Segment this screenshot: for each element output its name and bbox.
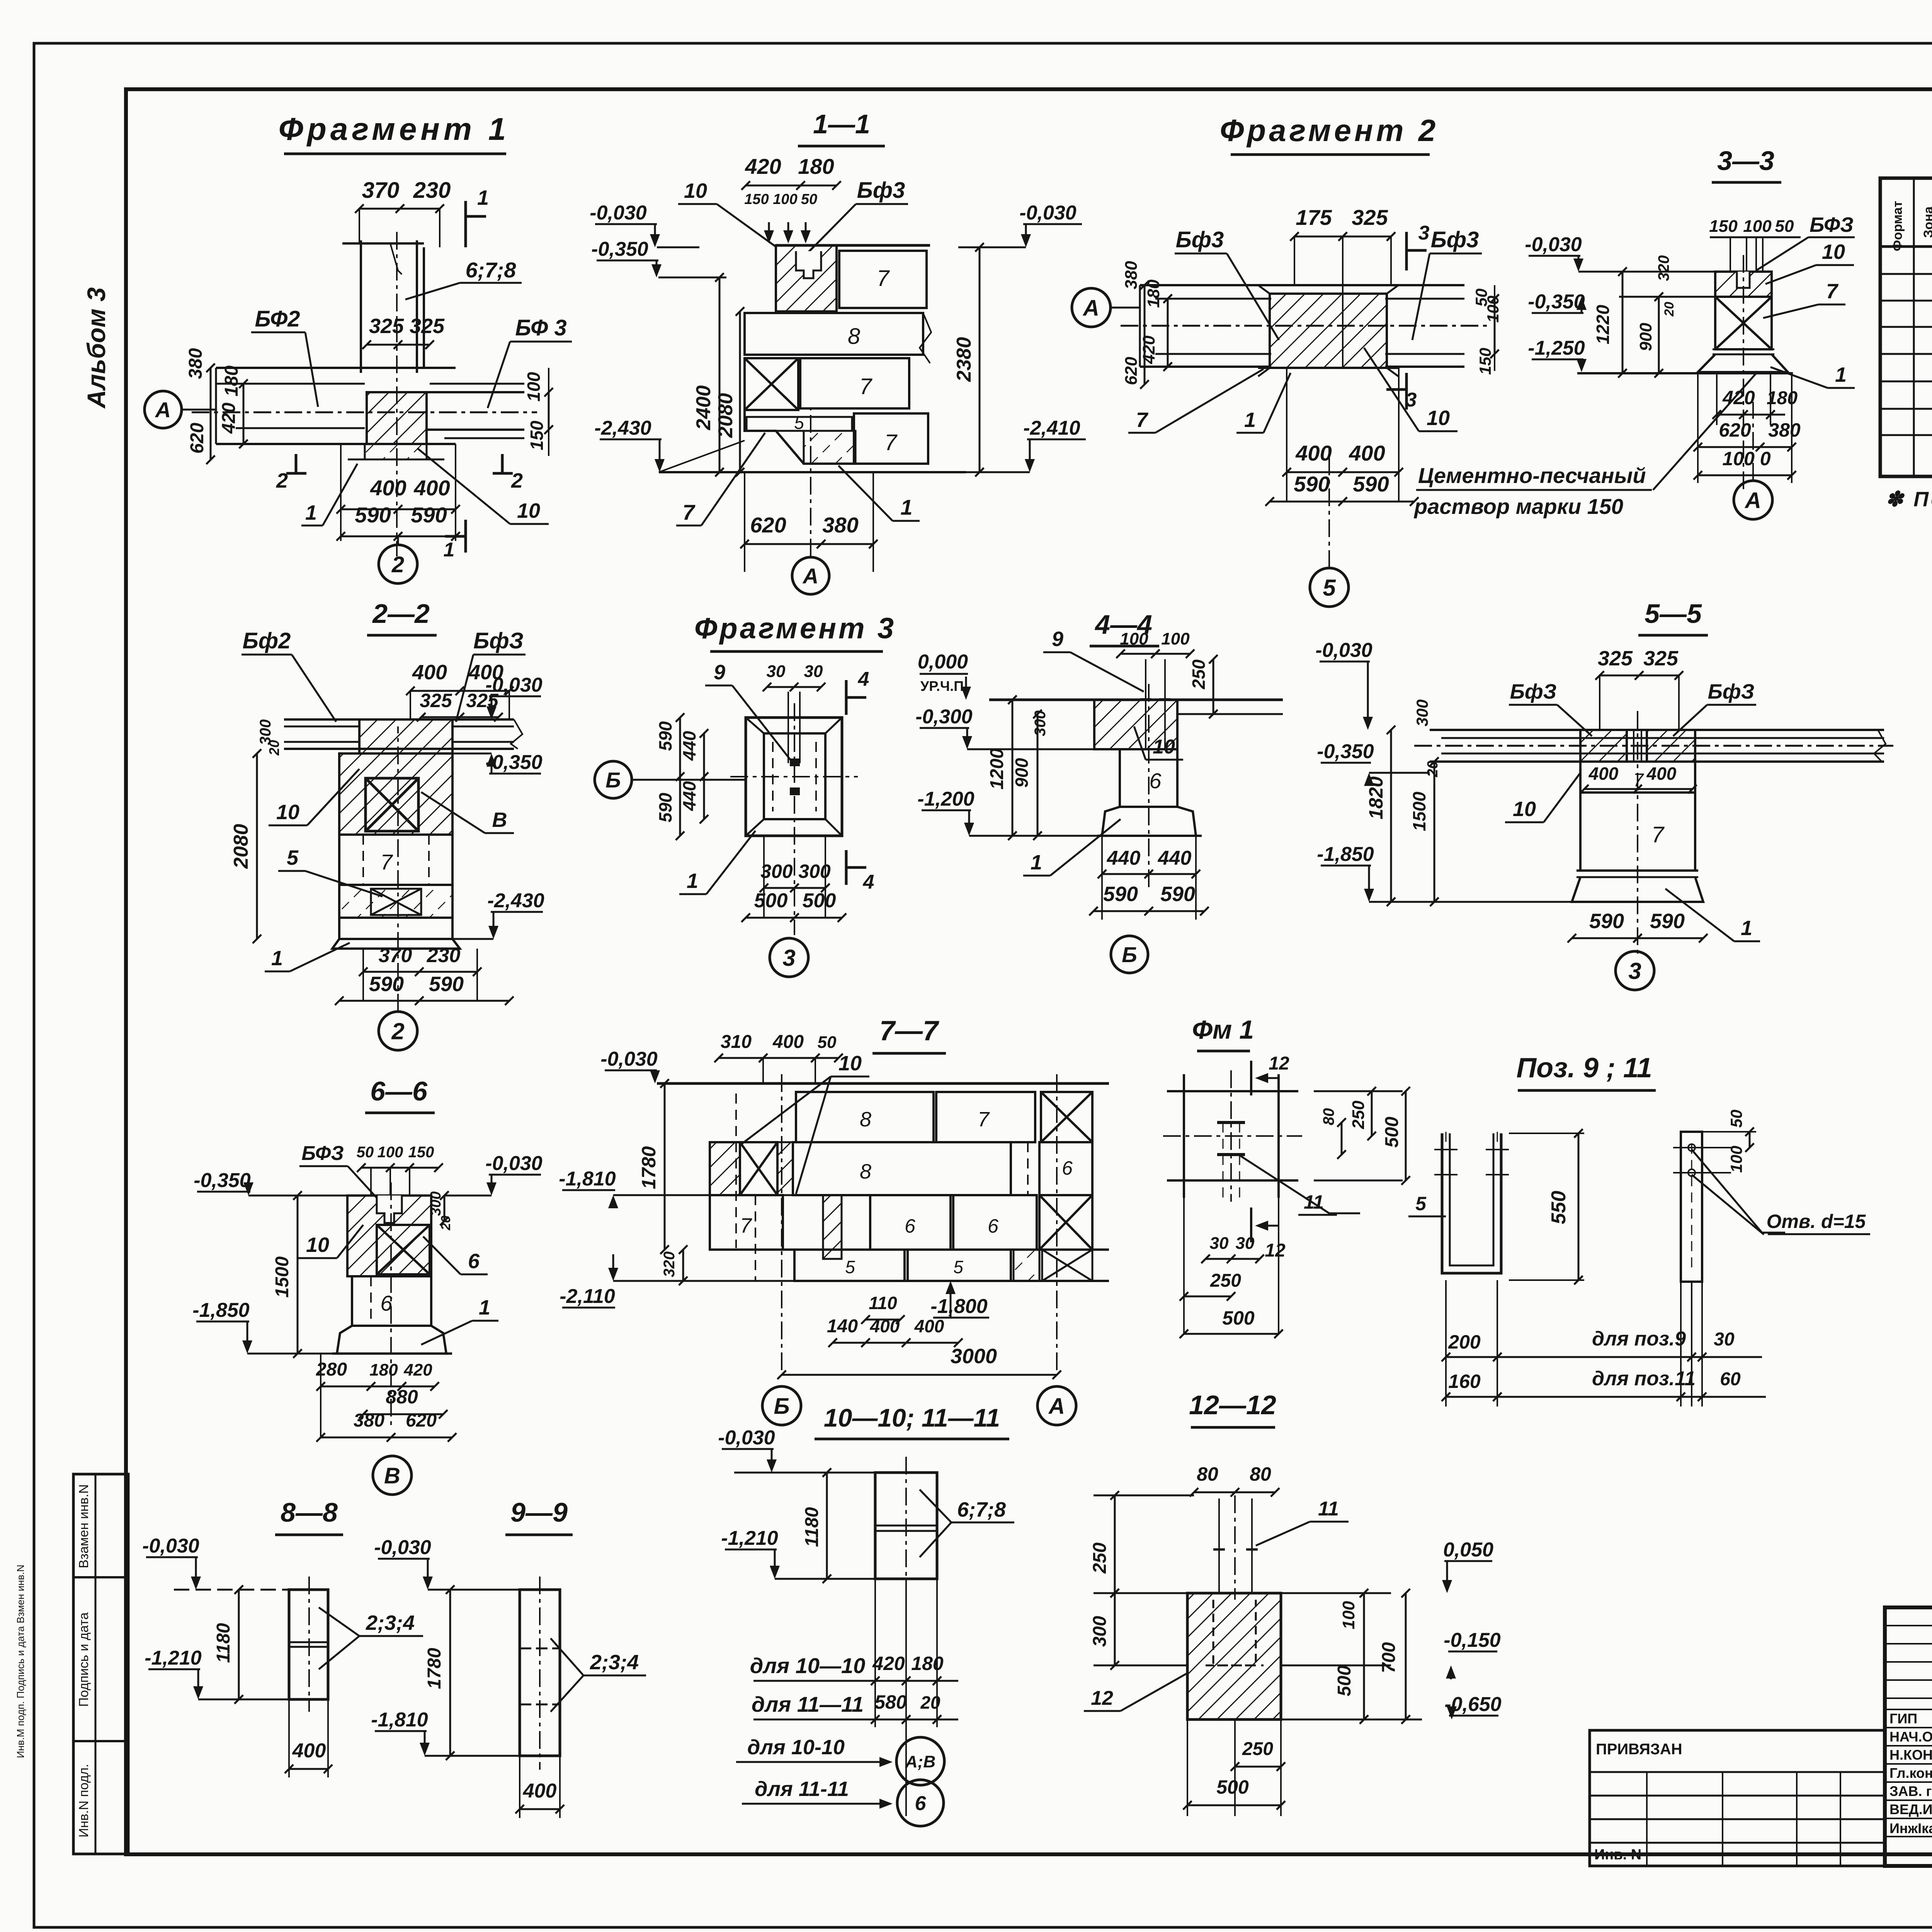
svg-text:7: 7 (1826, 280, 1839, 303)
svg-text:10—10; 11—11: 10—10; 11—11 (824, 1403, 1000, 1432)
svg-text:880: 880 (386, 1386, 418, 1408)
svg-text:В: В (492, 808, 507, 832)
svg-text:3: 3 (1406, 389, 1417, 411)
f3 square plan (746, 718, 842, 836)
s55 beam band (1430, 729, 1884, 731)
svg-text:6: 6 (1062, 1157, 1073, 1179)
fragment1 axis circle A (145, 391, 182, 428)
svg-text:500: 500 (754, 889, 788, 912)
svg-text:10: 10 (517, 499, 540, 522)
svg-text:-0,030: -0,030 (1315, 639, 1372, 662)
s55 axis circle 3 (1616, 951, 1654, 990)
svg-text:320: 320 (661, 1252, 678, 1277)
svg-text:12: 12 (1269, 1053, 1289, 1074)
svg-text:2080: 2080 (714, 393, 737, 438)
s11 axis circle A bottom (792, 557, 829, 594)
svg-text:100: 100 (524, 372, 544, 401)
svg-text:1: 1 (900, 495, 912, 519)
svg-text:3—3: 3—3 (1717, 146, 1774, 176)
svg-text:100: 100 (378, 1144, 403, 1161)
svg-text:440: 440 (679, 731, 699, 761)
svg-text:30: 30 (1714, 1329, 1735, 1350)
svg-text:5: 5 (1415, 1193, 1427, 1214)
svg-text:Фрагмент 2: Фрагмент 2 (1220, 113, 1439, 148)
svg-text:1: 1 (1835, 363, 1847, 386)
svg-text:380: 380 (822, 513, 858, 537)
s44 base (1102, 807, 1196, 836)
svg-text:10: 10 (1427, 406, 1450, 430)
svg-text:Инв.N подл.: Инв.N подл. (77, 1764, 91, 1837)
svg-text:1200: 1200 (987, 748, 1007, 789)
svg-text:ИнжІкат.: ИнжІкат. (1889, 1820, 1932, 1836)
svg-text:-1,800: -1,800 (930, 1295, 988, 1318)
svg-text:100: 100 (773, 191, 797, 207)
svg-text:-0,350: -0,350 (194, 1169, 251, 1192)
q99 column (520, 1590, 560, 1756)
svg-text:2;3;4: 2;3;4 (590, 1651, 639, 1674)
svg-text:400: 400 (1349, 441, 1385, 465)
svg-text:3000: 3000 (951, 1345, 997, 1368)
svg-text:400: 400 (1295, 441, 1332, 465)
s77 wall row4 (710, 1248, 1109, 1251)
svg-text:400: 400 (413, 476, 450, 500)
svg-text:250: 250 (1242, 1739, 1273, 1759)
svg-text:5: 5 (953, 1257, 963, 1277)
svg-text:7: 7 (877, 266, 890, 291)
s66 block 6 (352, 1276, 431, 1326)
svg-text:-0,150: -0,150 (1444, 1629, 1501, 1651)
svg-text:БФЗ: БФЗ (1810, 213, 1854, 236)
svg-text:500: 500 (803, 889, 836, 912)
svg-text:230: 230 (427, 944, 461, 967)
svg-text:6: 6 (1149, 769, 1162, 793)
svg-text:20: 20 (1662, 302, 1677, 317)
svg-text:50: 50 (801, 191, 817, 207)
svg-text:-0,030: -0,030 (1525, 233, 1582, 256)
f2 beam band (1140, 284, 1271, 286)
svg-text:200: 200 (1448, 1331, 1481, 1353)
svg-text:620: 620 (750, 513, 786, 537)
o12 level top (1094, 1495, 1194, 1497)
svg-text:50: 50 (1775, 217, 1794, 236)
svg-text:7: 7 (682, 500, 696, 524)
svg-text:2: 2 (391, 1019, 404, 1044)
svg-text:-1,200: -1,200 (917, 788, 975, 810)
svg-text:Цементно-песчаный: Цементно-песчаный (1418, 463, 1646, 488)
fm1 plan (1183, 1074, 1185, 1198)
svg-text:1—1: 1—1 (813, 109, 870, 139)
svg-text:Б: Б (605, 768, 621, 792)
s77 wall top line (657, 1082, 1109, 1085)
svg-text:Взамен инв.N: Взамен инв.N (77, 1484, 91, 1568)
svg-text:5: 5 (287, 846, 299, 869)
svg-text:11: 11 (1304, 1191, 1324, 1213)
svg-text:6: 6 (468, 1250, 480, 1273)
svg-text:380: 380 (1768, 419, 1801, 441)
svg-text:ЗАВ. гр.: ЗАВ. гр. (1889, 1783, 1932, 1799)
svg-text:1500: 1500 (1409, 791, 1429, 831)
svg-text:Фрагмент 1: Фрагмент 1 (279, 112, 510, 147)
svg-text:9: 9 (1052, 628, 1063, 651)
svg-text:590: 590 (1160, 883, 1195, 906)
svg-text:590: 590 (655, 721, 675, 751)
svg-text:9: 9 (714, 661, 725, 684)
s22 hatched column top (359, 719, 452, 753)
f2 section mark 3 top (1405, 232, 1408, 270)
svg-text:700: 700 (1379, 1642, 1399, 1673)
svg-text:7: 7 (1651, 822, 1665, 847)
svg-text:8: 8 (848, 324, 860, 349)
poz11 plate (1681, 1132, 1702, 1282)
fm1 section mark 12 top (1250, 1061, 1252, 1095)
svg-text:2: 2 (391, 552, 404, 577)
fragment1 section mark 1 bottom (464, 520, 467, 553)
svg-text:Б: Б (774, 1394, 789, 1419)
s11 break mark right (920, 313, 931, 363)
fm1 leader 11 (1240, 1155, 1360, 1213)
svg-text:БФ2: БФ2 (255, 306, 300, 332)
svg-text:380: 380 (1122, 261, 1141, 289)
svg-text:8: 8 (860, 1160, 871, 1183)
svg-text:580: 580 (874, 1691, 907, 1713)
s55 hatched centre (1580, 730, 1627, 762)
svg-text:250: 250 (1349, 1100, 1368, 1129)
svg-text:БфЗ: БфЗ (1708, 680, 1755, 703)
svg-text:400: 400 (412, 661, 447, 684)
s77 wall row3 (710, 1195, 783, 1250)
svg-text:500: 500 (1216, 1776, 1249, 1798)
svg-text:300: 300 (1413, 699, 1431, 726)
svg-text:180: 180 (798, 154, 834, 179)
svg-text:10: 10 (838, 1052, 862, 1075)
svg-text:2: 2 (276, 469, 288, 492)
svg-text:590: 590 (1103, 883, 1138, 906)
svg-text:УР.Ч.П.: УР.Ч.П. (920, 678, 968, 694)
svg-text:Фрагмент 3: Фрагмент 3 (694, 612, 896, 645)
svg-text:380: 380 (185, 348, 206, 379)
svg-text:Б: Б (1122, 942, 1137, 967)
svg-text:325: 325 (1643, 647, 1679, 670)
svg-text:10: 10 (306, 1233, 329, 1257)
svg-text:БФЗ: БФЗ (301, 1142, 344, 1165)
svg-text:1: 1 (1031, 851, 1042, 874)
fm1 section mark 12 bottom (1250, 1207, 1252, 1242)
svg-text:Н.КОНТР.: Н.КОНТР. (1889, 1747, 1932, 1763)
svg-text:440: 440 (679, 781, 699, 811)
f2 section mark 3 bottom (1405, 373, 1408, 410)
svg-text:400: 400 (1646, 764, 1677, 784)
svg-text:Зона: Зона (1921, 206, 1932, 238)
sidebar boxes (73, 1474, 128, 1854)
svg-text:В: В (384, 1463, 400, 1488)
svg-text:420: 420 (872, 1653, 905, 1674)
svg-text:100: 100 (1120, 629, 1148, 648)
svg-text:-2,430: -2,430 (487, 889, 544, 912)
svg-text:3: 3 (782, 945, 795, 971)
title block left extension (1590, 1730, 1885, 1866)
svg-text:12: 12 (1265, 1240, 1286, 1261)
svg-text:150: 150 (527, 420, 547, 450)
f2 axis circle A (1072, 288, 1111, 327)
svg-text:6: 6 (988, 1215, 998, 1237)
svg-text:400: 400 (870, 1316, 900, 1336)
svg-text:10: 10 (1153, 736, 1175, 758)
svg-text:380: 380 (354, 1410, 384, 1431)
svg-text:ПРИВЯЗАН: ПРИВЯЗАН (1596, 1741, 1682, 1758)
svg-text:А: А (802, 564, 818, 588)
svg-text:140: 140 (827, 1316, 858, 1337)
svg-text:250: 250 (1090, 1543, 1110, 1574)
svg-text:1500: 1500 (272, 1256, 293, 1298)
n10 column (875, 1473, 937, 1579)
svg-text:Подпись и дата: Подпись и дата (77, 1612, 91, 1707)
s44 column 6 (1120, 749, 1177, 807)
svg-text:-0,030: -0,030 (374, 1536, 431, 1559)
svg-text:0,050: 0,050 (1443, 1539, 1493, 1561)
svg-text:для 11-11: для 11-11 (755, 1777, 849, 1801)
svg-text:1: 1 (305, 501, 317, 524)
svg-text:А: А (1744, 488, 1761, 513)
svg-text:10: 10 (1822, 240, 1845, 264)
svg-text:20: 20 (266, 740, 282, 756)
svg-text:Поз. 9 ; 11: Поз. 9 ; 11 (1516, 1053, 1652, 1083)
svg-text:420: 420 (1722, 387, 1755, 408)
s44 anchor bolts (1145, 659, 1146, 750)
svg-text:400: 400 (292, 1740, 326, 1762)
svg-text:180: 180 (221, 366, 242, 396)
s44 axis circle B (1111, 936, 1148, 973)
svg-text:Бф3: Бф3 (1176, 227, 1224, 252)
svg-text:-1,850: -1,850 (192, 1299, 250, 1321)
svg-text:590: 590 (411, 503, 447, 527)
svg-text:310: 310 (721, 1032, 752, 1052)
svg-text:100: 100 (1161, 629, 1190, 648)
f3 bolts top (787, 692, 789, 763)
svg-text:-2,430: -2,430 (594, 417, 651, 439)
svg-text:5—5: 5—5 (1645, 599, 1702, 629)
svg-text:325: 325 (369, 315, 404, 338)
svg-text:А: А (1082, 296, 1099, 321)
svg-text:-0,350: -0,350 (591, 238, 648, 260)
svg-text:7: 7 (740, 1214, 752, 1237)
svg-text:590: 590 (1294, 472, 1330, 496)
svg-text:для поз.9: для поз.9 (1592, 1328, 1686, 1350)
s11 wall blocks (776, 244, 930, 247)
svg-text:5: 5 (845, 1257, 855, 1277)
svg-text:-1,250: -1,250 (1528, 337, 1585, 359)
fragment1 hatched core (367, 392, 427, 444)
svg-text:180: 180 (369, 1361, 398, 1379)
s55 column (1580, 762, 1695, 793)
svg-text:160: 160 (1448, 1371, 1481, 1392)
svg-text:500: 500 (1382, 1117, 1402, 1148)
svg-text:7: 7 (859, 374, 873, 399)
svg-text:1220: 1220 (1593, 304, 1613, 344)
svg-text:620: 620 (1719, 419, 1751, 441)
svg-text:4: 4 (858, 668, 869, 690)
svg-text:325: 325 (420, 690, 452, 711)
svg-text:500: 500 (1334, 1665, 1355, 1696)
svg-text:30: 30 (804, 662, 823, 681)
svg-text:550: 550 (1548, 1191, 1570, 1225)
svg-text:-2,110: -2,110 (560, 1285, 615, 1308)
svg-text:100: 100 (1727, 1146, 1745, 1173)
svg-text:БфЗ: БфЗ (1510, 680, 1557, 703)
svg-text:10: 10 (276, 801, 299, 824)
svg-text:7: 7 (884, 430, 898, 455)
s44 ground line (989, 699, 1283, 701)
svg-text:250: 250 (1189, 659, 1209, 689)
svg-text:100: 100 (1339, 1601, 1358, 1629)
svg-text:-1,810: -1,810 (559, 1168, 616, 1190)
svg-text:6;7;8: 6;7;8 (466, 258, 517, 282)
svg-text:60: 60 (1720, 1369, 1741, 1389)
svg-text:раствор марки 150: раствор марки 150 (1413, 494, 1623, 519)
svg-text:для 10—10: для 10—10 (750, 1653, 866, 1678)
s55 base (1577, 869, 1698, 872)
s22 axis circle 2 (379, 1012, 417, 1050)
svg-text:3: 3 (1628, 958, 1641, 984)
svg-text:А: А (1048, 1394, 1065, 1419)
svg-text:2—2: 2—2 (372, 599, 430, 629)
svg-text:300: 300 (760, 861, 793, 882)
svg-text:Инв. N: Инв. N (1594, 1847, 1641, 1863)
svg-text:-0,030: -0,030 (485, 674, 543, 696)
svg-text:✽ Поз. 11 эскиз см. на данном: ✽ Поз. 11 эскиз см. на данном листе (1886, 488, 1932, 511)
svg-text:320: 320 (1655, 255, 1672, 281)
f3 section mark 4 top (845, 680, 848, 715)
svg-text:1180: 1180 (802, 1507, 822, 1547)
svg-text:80: 80 (1320, 1108, 1337, 1126)
svg-text:110: 110 (869, 1293, 897, 1313)
s66 base (337, 1326, 446, 1354)
svg-text:0,000: 0,000 (918, 651, 968, 673)
o12 levels left (1094, 1592, 1187, 1594)
fragment1 beam band (216, 367, 456, 369)
svg-text:Фм 1: Фм 1 (1192, 1015, 1254, 1044)
svg-text:300: 300 (1032, 711, 1049, 736)
svg-text:-0,300: -0,300 (915, 706, 973, 728)
svg-text:1: 1 (479, 1296, 490, 1319)
svg-text:175: 175 (1296, 205, 1332, 230)
svg-text:150: 150 (1709, 217, 1738, 236)
svg-text:20: 20 (439, 1216, 453, 1231)
svg-text:400: 400 (370, 476, 406, 500)
svg-text:620: 620 (187, 423, 207, 454)
svg-text:20: 20 (920, 1692, 940, 1713)
svg-text:10: 10 (684, 179, 707, 202)
svg-text:Инв.М подп. Подпись и дата Взм: Инв.М подп. Подпись и дата Взмен инв.N (15, 1565, 26, 1758)
svg-text:-0,030: -0,030 (1019, 202, 1077, 224)
svg-text:30: 30 (1210, 1234, 1229, 1253)
svg-text:1820: 1820 (1365, 776, 1387, 819)
svg-text:300: 300 (428, 1191, 444, 1216)
svg-text:50: 50 (818, 1033, 837, 1052)
f2 hatched centre block (1270, 294, 1387, 368)
svg-text:1780: 1780 (424, 1648, 445, 1689)
fm1 right dims (1314, 1090, 1403, 1092)
svg-text:100 0: 100 0 (1722, 448, 1770, 469)
svg-text:180: 180 (1767, 388, 1798, 408)
s77 wall row2 (710, 1142, 740, 1195)
svg-text:-0,350: -0,350 (1317, 740, 1374, 763)
svg-text:8: 8 (860, 1108, 871, 1131)
svg-text:7: 7 (978, 1108, 990, 1131)
svg-text:для 11—11: для 11—11 (752, 1692, 864, 1716)
svg-text:590: 590 (355, 503, 391, 527)
svg-text:1: 1 (687, 869, 698, 893)
svg-text:325: 325 (410, 315, 445, 338)
svg-text:1: 1 (477, 186, 489, 209)
svg-text:-1,810: -1,810 (371, 1709, 428, 1731)
svg-text:6: 6 (915, 1793, 927, 1815)
svg-text:590: 590 (1650, 910, 1685, 933)
svg-text:400: 400 (523, 1780, 557, 1802)
svg-text:1: 1 (271, 947, 283, 970)
svg-text:7—7: 7—7 (879, 1015, 939, 1046)
n10 ext lines (874, 1579, 876, 1727)
s44 hatched cap (1094, 700, 1177, 749)
svg-text:400: 400 (914, 1316, 944, 1336)
s22 main block (339, 753, 452, 835)
f3 axis circle B (595, 761, 632, 798)
svg-text:5: 5 (1323, 575, 1336, 601)
svg-text:1: 1 (1244, 408, 1256, 432)
svg-text:180: 180 (911, 1653, 944, 1674)
poz9 U channel (1442, 1133, 1501, 1273)
s66 block (347, 1196, 431, 1276)
svg-text:420: 420 (403, 1361, 432, 1379)
svg-text:9—9: 9—9 (510, 1497, 568, 1527)
svg-text:-0,030: -0,030 (718, 1427, 775, 1449)
o12 hatched block (1187, 1593, 1281, 1719)
svg-text:2: 2 (511, 469, 523, 492)
svg-text:420: 420 (745, 154, 781, 179)
svg-text:4: 4 (863, 871, 874, 893)
o12 right side (1281, 1592, 1391, 1594)
svg-text:590: 590 (1589, 910, 1624, 933)
p88 column (289, 1590, 328, 1699)
svg-text:900: 900 (1012, 758, 1032, 787)
svg-text:150: 150 (744, 191, 769, 207)
s77 wall row1 (796, 1092, 934, 1142)
s33 column (1715, 272, 1772, 297)
s66 axis circle V (373, 1456, 412, 1495)
svg-text:590: 590 (429, 973, 464, 996)
svg-text:370: 370 (362, 178, 400, 203)
svg-text:400: 400 (772, 1032, 804, 1052)
svg-text:80: 80 (1197, 1463, 1218, 1485)
svg-text:250: 250 (1210, 1270, 1241, 1291)
svg-text:НАЧ.ОТД.: НАЧ.ОТД. (1889, 1729, 1932, 1745)
svg-text:Альбом 3: Альбом 3 (82, 287, 111, 409)
title block outline (1885, 1607, 1932, 1866)
svg-text:50: 50 (1727, 1110, 1745, 1128)
svg-text:1: 1 (1741, 917, 1752, 940)
svg-text:590: 590 (1353, 472, 1389, 496)
svg-text:440: 440 (1158, 847, 1192, 869)
svg-text:для поз.11: для поз.11 (1592, 1367, 1696, 1390)
svg-text:8—8: 8—8 (281, 1497, 338, 1527)
svg-text:900: 900 (1636, 323, 1655, 351)
f3 axis circle 3 (770, 938, 808, 977)
svg-text:ГИП: ГИП (1889, 1711, 1917, 1726)
fragment1 axis circle 2 (379, 545, 417, 583)
svg-text:2400: 2400 (692, 385, 715, 430)
svg-text:1180: 1180 (213, 1623, 234, 1663)
svg-text:-1,210: -1,210 (145, 1647, 202, 1669)
svg-text:30: 30 (767, 662, 786, 681)
